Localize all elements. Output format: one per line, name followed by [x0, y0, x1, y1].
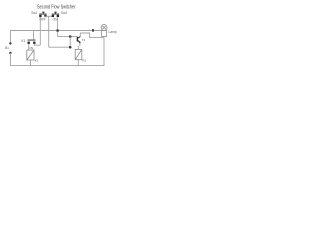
wire: Sw2 right leg down: [57, 17, 59, 36]
resistor R1 box: [75, 50, 82, 60]
wire: Sw1-Sw2 midpoint drop: [48, 16, 50, 47]
svg-text:R1: R1: [82, 58, 86, 62]
node lower junction: [69, 46, 72, 49]
wire: base line horizontal: [58, 36, 77, 38]
wire: contact right leg to Sw1 leg: [34, 44, 40, 45]
node base line junction: [69, 35, 72, 38]
svg-text:K1: K1: [35, 59, 39, 63]
wire: left rail upper: [9, 31, 11, 44]
wire: contact left leg to coil: [28, 44, 30, 50]
wire: Sw1 left leg down to contact row: [39, 17, 41, 45]
wire: collector up: [79, 33, 81, 37]
wire: right rail: [103, 38, 105, 66]
relay coil K1 box: [27, 50, 34, 60]
wire: junction vertical: [69, 37, 71, 48]
svg-text:Sw1: Sw1: [31, 11, 37, 15]
wire: top bus: [10, 30, 102, 32]
node Sw2 leg on bus: [56, 29, 59, 32]
pushbutton Sw1: [39, 12, 46, 17]
wire: coil bottom to rail: [30, 60, 32, 66]
wire: bottom rail: [10, 65, 104, 67]
node on bus near lamp: [92, 29, 94, 31]
svg-text:K1: K1: [21, 39, 25, 43]
wire: collector to lamp feed: [80, 33, 104, 38]
wire: resistor bottom to rail: [77, 60, 79, 66]
transistor T1: [77, 36, 81, 43]
relay contact K1: [28, 40, 36, 44]
lamp: [101, 25, 107, 37]
wire: midpoint drop horizontal to node: [49, 46, 70, 48]
node battery top terminal: [9, 42, 11, 44]
wire: Sw1 to Sw2 link: [44, 15, 54, 17]
svg-text:T1: T1: [82, 38, 86, 42]
svg-text:Second Flow Switcher: Second Flow Switcher: [37, 4, 76, 10]
svg-text:B1: B1: [5, 46, 9, 50]
pushbutton Sw2: [52, 12, 59, 17]
svg-text:Sw2: Sw2: [61, 11, 67, 15]
svg-text:Lamp: Lamp: [108, 30, 117, 34]
wire: left rail lower: [9, 53, 11, 66]
node battery bottom terminal: [9, 52, 11, 54]
wire: contact actuator stem from bus: [33, 31, 35, 40]
wire: emitter down to resistor: [79, 43, 81, 46]
